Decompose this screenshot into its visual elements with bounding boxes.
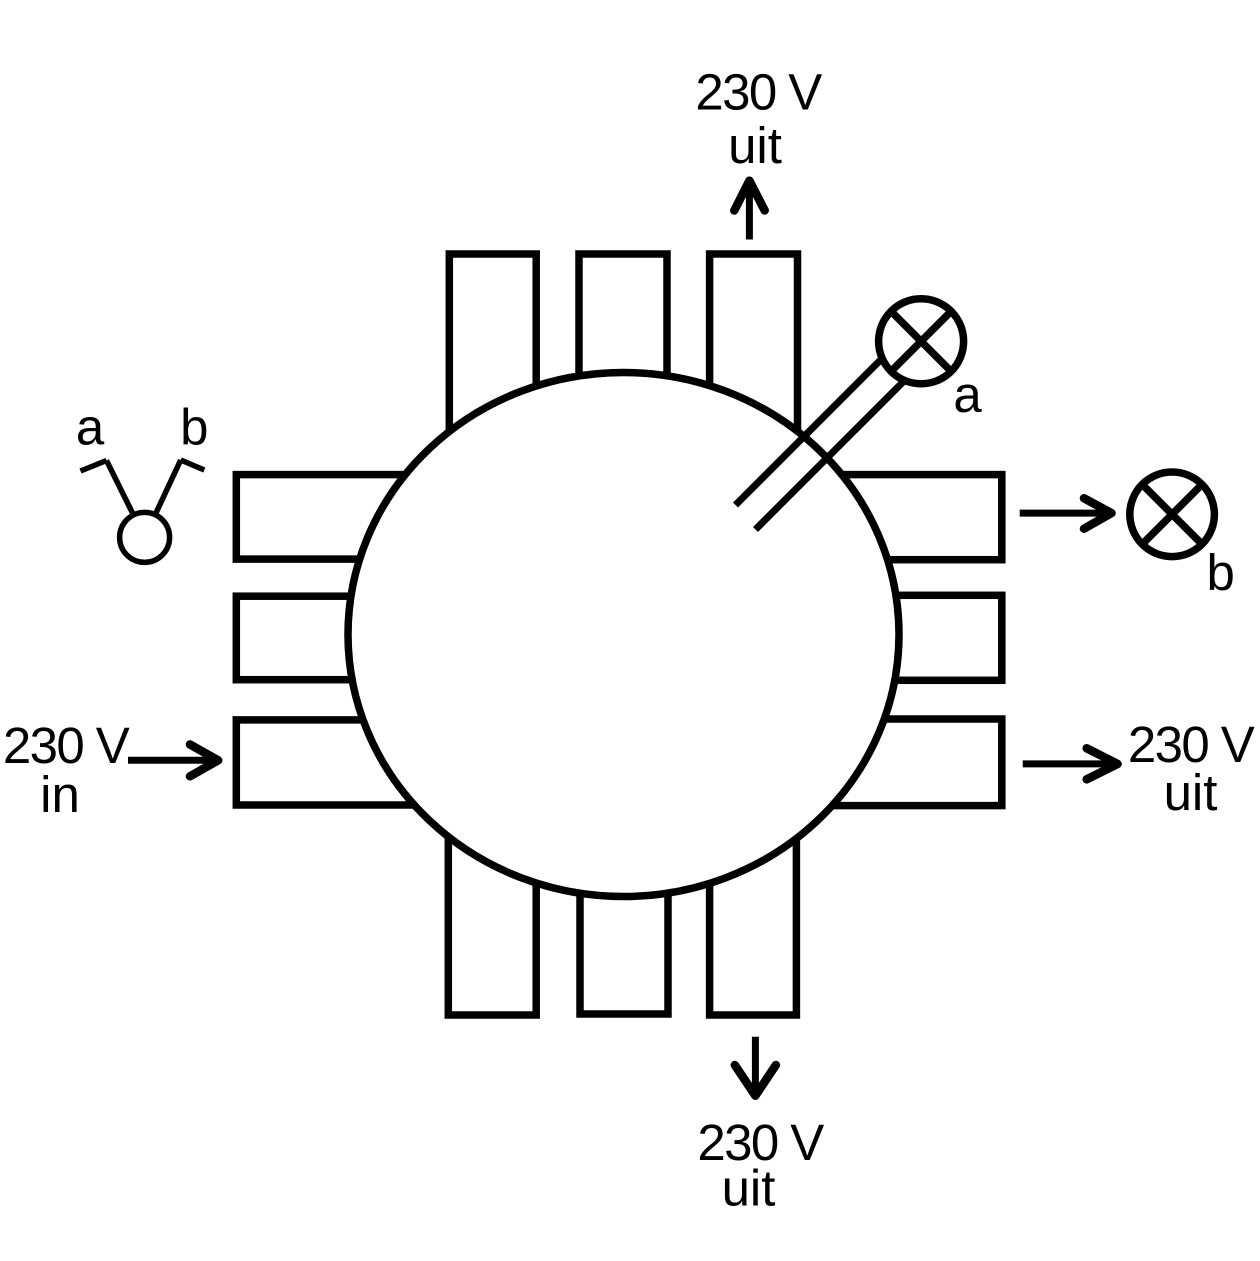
svg-text:uit: uit (722, 1160, 776, 1217)
conduit stub bottom-right (710, 828, 797, 1015)
junction box (central circle) (348, 373, 899, 897)
lamp b (circle with cross) (1130, 472, 1215, 557)
conduit stub left-top (236, 475, 462, 559)
conduit stub left-bottom (236, 720, 462, 805)
conduit stub top-middle (579, 254, 667, 445)
lamp a (circle with cross) (879, 299, 964, 384)
conduit stub top-right (710, 254, 798, 445)
svg-text:b: b (1207, 544, 1235, 601)
conduit stub right-bottom (788, 719, 1002, 806)
conduit stub bottom-left (448, 828, 536, 1015)
conduit stub top-left (449, 254, 536, 445)
svg-text:230 V: 230 V (695, 64, 822, 121)
conduit stub left-middle (236, 596, 462, 680)
svg-text:a: a (76, 398, 105, 455)
arrow to lamp b (1020, 498, 1112, 528)
svg-text:in: in (40, 766, 80, 823)
svg-text:uit: uit (1164, 764, 1218, 821)
svg-text:b: b (180, 398, 208, 455)
arrow 230V uit (right) (1023, 748, 1118, 779)
conduit stub right-middle (788, 595, 1002, 680)
svg-text:a: a (953, 366, 982, 423)
switch S (two-way switch symbol) (81, 460, 205, 562)
arrow 230V in (left) (128, 745, 218, 777)
svg-text:uit: uit (728, 117, 782, 174)
arrow 230V uit (bottom) (735, 1037, 776, 1096)
arrow 230V uit (top) (734, 181, 764, 240)
conduit stub right-top (788, 475, 1002, 560)
wire (double line) to lamp a (736, 355, 909, 530)
conduit stub bottom-middle (580, 828, 668, 1014)
